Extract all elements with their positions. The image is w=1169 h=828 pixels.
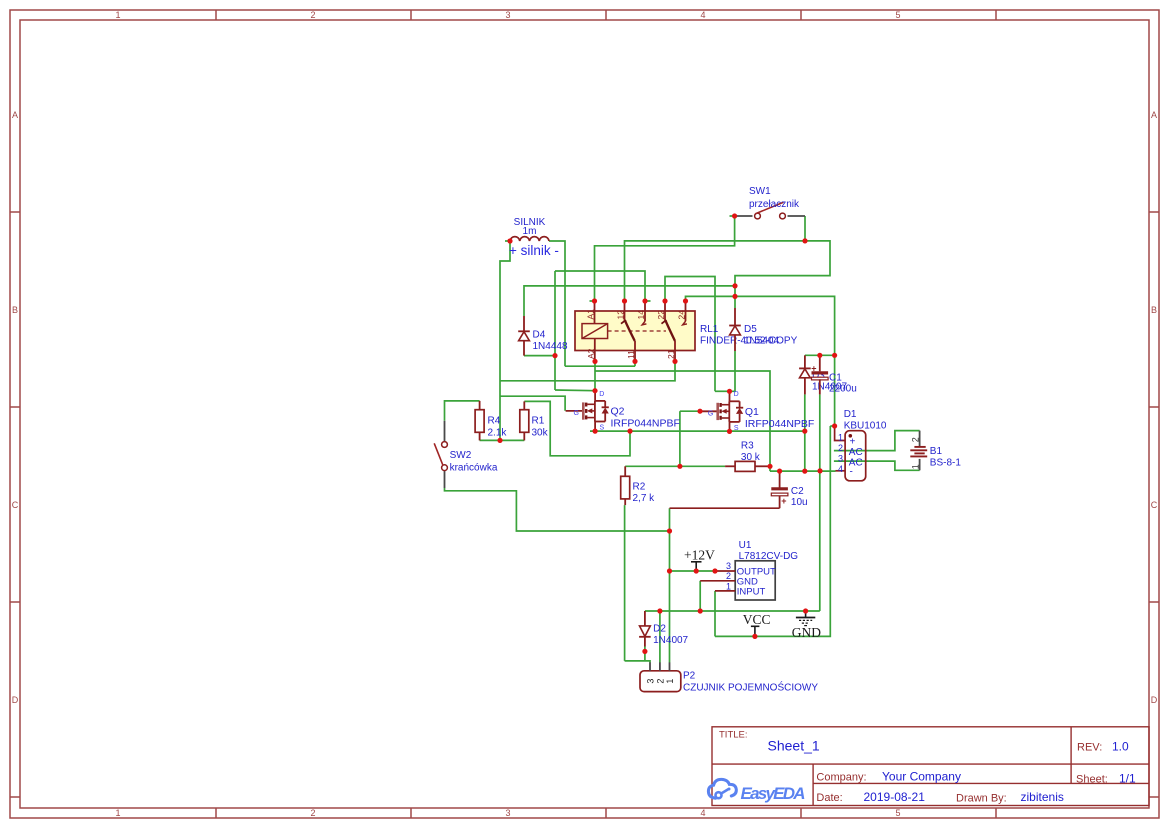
wire: x555 bottom to Q2 drain bbox=[555, 389, 595, 392]
wire: relay pin 11 stub bbox=[634, 361, 636, 366]
wire: D1 pin2 to battery terminal 2 bbox=[834, 431, 920, 451]
wire: D3 anode column through source rail bbox=[804, 394, 806, 471]
svg-text:S: S bbox=[600, 425, 605, 432]
svg-text:10u: 10u bbox=[791, 497, 808, 508]
svg-text:Drawn By:: Drawn By: bbox=[956, 792, 1007, 804]
svg-text:1: 1 bbox=[911, 464, 921, 469]
svg-text:KBU1010: KBU1010 bbox=[844, 421, 887, 432]
capacitor C1 symbol bbox=[811, 363, 828, 380]
svg-text:Company:: Company: bbox=[816, 771, 866, 783]
svg-text:2: 2 bbox=[911, 437, 921, 442]
wire: y=471 rail to D1 pin 4 bbox=[770, 470, 836, 472]
svg-text:G: G bbox=[574, 410, 579, 417]
wire: D3/C1 top rail bbox=[805, 354, 835, 356]
svg-text:TITLE:: TITLE: bbox=[719, 730, 748, 741]
U1 pin 1 INPUT bbox=[715, 590, 735, 592]
D1 pin 4 bbox=[836, 470, 846, 472]
svg-text:D: D bbox=[734, 391, 739, 398]
svg-text:AC: AC bbox=[849, 447, 863, 458]
relay pin 24 with open contact chevron bbox=[683, 301, 687, 325]
wire: Q1 gate down to R3 rail bbox=[679, 411, 681, 466]
power symbol +12V bbox=[684, 548, 715, 572]
svg-text:R1: R1 bbox=[532, 416, 545, 427]
resistor R2 body bbox=[621, 476, 630, 499]
svg-text:12: 12 bbox=[616, 310, 626, 320]
svg-text:1m: 1m bbox=[523, 226, 537, 237]
svg-text:5: 5 bbox=[895, 10, 900, 20]
svg-text:D2: D2 bbox=[653, 624, 666, 635]
svg-text:2: 2 bbox=[838, 443, 843, 453]
U1 pin numbers bbox=[726, 561, 731, 591]
svg-text:30 k: 30 k bbox=[741, 452, 761, 463]
svg-text:IRFP044NPBF: IRFP044NPBF bbox=[745, 418, 814, 430]
svg-text:krańcówka: krańcówka bbox=[450, 463, 498, 474]
wire: D5 anode down to Q1 drain bbox=[730, 351, 736, 391]
svg-text:EasyEDA: EasyEDA bbox=[741, 784, 806, 803]
svg-text:Sheet:: Sheet: bbox=[1076, 773, 1108, 785]
svg-text:2,7 k: 2,7 k bbox=[633, 493, 656, 504]
relay pin 12 bbox=[624, 301, 626, 321]
resistor R1 body bbox=[520, 410, 529, 433]
U1 pin 3 OUTPUT bbox=[715, 570, 735, 572]
wire: SW1 right terminal down bbox=[804, 216, 806, 241]
diode D5 symbol (cathode up) bbox=[729, 326, 741, 335]
svg-text:C2: C2 bbox=[791, 486, 804, 497]
svg-text:2: 2 bbox=[310, 10, 315, 20]
wire: pin 14 stub bbox=[645, 300, 651, 302]
svg-text:24: 24 bbox=[676, 310, 686, 320]
wire: pin22 loop to Q1 drain bbox=[715, 390, 730, 392]
wire: SW1 left stub bbox=[730, 215, 736, 217]
D1 polarity dot bbox=[849, 434, 853, 438]
svg-text:A: A bbox=[1151, 110, 1157, 120]
svg-text:4: 4 bbox=[700, 10, 705, 20]
svg-text:2: 2 bbox=[310, 808, 315, 818]
svg-text:14: 14 bbox=[636, 310, 646, 320]
relay pin 22 bbox=[664, 301, 666, 321]
U1 pin names bbox=[737, 566, 776, 597]
svg-text:Sheet_1: Sheet_1 bbox=[768, 738, 820, 754]
wire: pin11 rail horizontal bbox=[565, 365, 635, 367]
wire: C2 bottom horizontal (red wire) bbox=[670, 507, 780, 509]
relay RL1 FINDER-40.52 body bbox=[575, 311, 695, 351]
relay pin 11 bbox=[634, 341, 636, 361]
U1 pin 2 GND bbox=[700, 580, 735, 582]
wire: Q2 gate branch bbox=[500, 396, 565, 411]
diode D4 pins bbox=[523, 341, 525, 356]
D1 pin 1 bbox=[835, 426, 846, 441]
power symbol VCC bbox=[743, 612, 771, 636]
wire: SILNIK+ down-left to R4/R1 bottom rail bbox=[500, 241, 510, 440]
svg-text:1: 1 bbox=[115, 10, 120, 20]
wire: R2 bottom column bbox=[624, 505, 626, 661]
relay pin 21 bbox=[674, 341, 676, 361]
wire: x555 vertical (relay pin14 net) bbox=[554, 271, 556, 390]
P2 pin leads bbox=[650, 662, 670, 670]
resistor R2 2,7k bbox=[621, 466, 630, 505]
svg-text:Date:: Date: bbox=[816, 792, 842, 804]
wire: C2 bottom column to P2 pin 1 bbox=[669, 508, 671, 662]
svg-text:3: 3 bbox=[726, 561, 731, 571]
svg-text:RL1: RL1 bbox=[700, 324, 719, 335]
svg-text:3: 3 bbox=[646, 679, 656, 684]
relay contact lever 1 bbox=[621, 320, 635, 341]
svg-text:3: 3 bbox=[505, 808, 510, 818]
svg-text:D5: D5 bbox=[744, 324, 757, 335]
svg-text:GND: GND bbox=[792, 625, 821, 640]
capacitor C2 10u bbox=[771, 471, 788, 508]
svg-text:R4: R4 bbox=[488, 416, 501, 427]
svg-text:30k: 30k bbox=[532, 428, 549, 439]
svg-text:-: - bbox=[850, 467, 853, 478]
svg-text:A: A bbox=[12, 110, 18, 120]
capacitor C1 2200u bbox=[811, 355, 828, 394]
wire: GND rail bbox=[645, 610, 820, 612]
resistor R1 30k bbox=[520, 401, 529, 440]
EasyEDA logo bbox=[708, 779, 805, 803]
svg-text:D4: D4 bbox=[533, 330, 546, 341]
svg-text:2: 2 bbox=[726, 571, 731, 581]
svg-text:4: 4 bbox=[700, 808, 705, 818]
wire: SW2 bottom route east to C2 column bbox=[445, 488, 670, 531]
svg-text:Q1: Q1 bbox=[745, 406, 759, 418]
svg-text:A2: A2 bbox=[586, 348, 596, 359]
wire: R1 top right-down to source-rail branch bbox=[524, 401, 630, 455]
svg-text:1N4448: 1N4448 bbox=[533, 341, 568, 352]
wire: C1 bottom column down to GND rail bbox=[819, 394, 821, 611]
svg-text:Your Company: Your Company bbox=[882, 769, 961, 783]
wire: Q1 gate stub bbox=[680, 410, 700, 412]
D1 pin numbers bbox=[838, 432, 843, 474]
svg-text:1.0: 1.0 bbox=[1112, 740, 1129, 754]
svg-text:B: B bbox=[12, 305, 18, 315]
wire: inductor left stub bbox=[505, 240, 510, 242]
relay pin A2 bbox=[594, 339, 596, 362]
title block texts bbox=[719, 730, 1136, 805]
D1 pin names bbox=[849, 437, 863, 478]
svg-text:D: D bbox=[599, 391, 604, 398]
diode D3 pins bbox=[804, 355, 806, 394]
connector P2 CZUJNIK body bbox=[640, 671, 681, 692]
wire: R4 bottom to R1 bottom bbox=[480, 439, 525, 441]
diode D2 1N4007 (cathode down) bbox=[639, 611, 651, 647]
switch SW2 krancowka bbox=[434, 421, 447, 488]
switch SW1 przelacznik bbox=[735, 202, 805, 219]
svg-text:3: 3 bbox=[838, 453, 843, 463]
wire: U1 INPUT down to VCC rail bbox=[714, 591, 716, 637]
diode D5 pins bbox=[734, 308, 736, 351]
wire: D1 pin1 node stub bbox=[830, 425, 834, 427]
relay coil box bbox=[582, 324, 608, 339]
transistor Q2 (IRFP044NPBF N-MOSFET) bbox=[566, 391, 609, 432]
wire: relay pin A1 to SW1 left bbox=[595, 216, 735, 301]
ground symbol GND bbox=[796, 611, 815, 626]
svg-text:1/1: 1/1 bbox=[1119, 771, 1136, 785]
relay pin A1 bbox=[594, 301, 596, 324]
svg-text:11: 11 bbox=[626, 350, 636, 359]
svg-text:1: 1 bbox=[838, 432, 843, 442]
svg-text:21: 21 bbox=[666, 349, 676, 359]
wire: SILNIK- right and down to relay pin 11 rail bbox=[549, 241, 565, 366]
svg-text:zibitenis: zibitenis bbox=[1021, 790, 1064, 804]
wire: relay pin A2 stub down to Q2 drain node bbox=[594, 361, 596, 390]
svg-text:IRFP044NPBF: IRFP044NPBF bbox=[611, 418, 680, 430]
svg-text:L7812CV-DG: L7812CV-DG bbox=[739, 551, 799, 562]
wire: D2 anode stub bbox=[644, 647, 646, 661]
wire: sensor signal rail to P2 pin3 bbox=[625, 661, 650, 663]
svg-text:C: C bbox=[12, 500, 19, 510]
battery B1 BS-8-1 bbox=[910, 431, 927, 471]
svg-text:B: B bbox=[1151, 305, 1157, 315]
wire: D5 column east and down to D1 pin 1 bbox=[735, 296, 835, 426]
title block bbox=[712, 727, 1149, 806]
relay dashed link bbox=[608, 330, 666, 332]
svg-text:2.1k: 2.1k bbox=[488, 428, 508, 439]
svg-text:przełacznik: przełacznik bbox=[749, 199, 800, 210]
svg-text:+12V: +12V bbox=[684, 548, 715, 563]
svg-text:D1: D1 bbox=[844, 409, 857, 420]
svg-text:4: 4 bbox=[838, 464, 843, 474]
svg-text:SW2: SW2 bbox=[450, 450, 472, 461]
resistor R4 2.1k bbox=[475, 401, 484, 441]
svg-text:B1: B1 bbox=[930, 446, 943, 457]
svg-text:+: + bbox=[781, 496, 786, 506]
junction dots bbox=[497, 213, 837, 654]
svg-text:2: 2 bbox=[655, 679, 665, 684]
svg-text:C1: C1 bbox=[829, 373, 842, 384]
bridge rectifier D1 KBU1010 body bbox=[845, 431, 866, 481]
transistor Q1 (IRFP044NPBF N-MOSFET) bbox=[700, 391, 743, 432]
svg-text:3: 3 bbox=[505, 10, 510, 20]
svg-text:1N4007: 1N4007 bbox=[653, 635, 688, 646]
svg-text:R2: R2 bbox=[633, 482, 646, 493]
capacitor C2 symbol bbox=[771, 489, 788, 506]
wire: x555 top to relay pin 14 bbox=[555, 271, 645, 301]
svg-text:G: G bbox=[708, 410, 713, 417]
wire: SW2 top to R4 top bbox=[445, 401, 480, 421]
svg-text:P2: P2 bbox=[683, 671, 696, 682]
svg-text:1: 1 bbox=[665, 679, 675, 684]
svg-text:+ silnik -: + silnik - bbox=[509, 243, 559, 258]
svg-text:R3: R3 bbox=[741, 441, 754, 452]
svg-text:2200u: 2200u bbox=[829, 383, 857, 394]
svg-text:CZUJNIK POJEMNOŚCIOWY: CZUJNIK POJEMNOŚCIOWY bbox=[683, 681, 818, 694]
wire: pin A1 stub bbox=[590, 300, 595, 302]
wire: source rail bbox=[590, 430, 805, 432]
svg-text:+: + bbox=[850, 437, 856, 448]
wire: D1 pin3 to battery terminal 1 bbox=[834, 461, 920, 470]
wire: D4 anode to x555 column bbox=[524, 355, 555, 357]
svg-text:D: D bbox=[12, 695, 19, 705]
wire: relay pin 22 loop down right of relay bbox=[665, 277, 715, 392]
wire: VCC column from D1 pin1 node bbox=[715, 426, 830, 636]
wire: D4 cathode up and east to D5 column bbox=[524, 286, 735, 316]
svg-text:1N5404: 1N5404 bbox=[744, 336, 779, 347]
svg-text:BS-8-1: BS-8-1 bbox=[930, 458, 962, 469]
wire: A2 node east to R3 right column bbox=[595, 371, 770, 471]
relay contact lever 2 bbox=[662, 320, 676, 341]
svg-text:+: + bbox=[811, 363, 816, 373]
svg-text:D: D bbox=[1151, 695, 1158, 705]
svg-text:VCC: VCC bbox=[743, 612, 771, 627]
svg-text:C: C bbox=[1151, 500, 1158, 510]
relay pin 14 with open contact chevron bbox=[642, 301, 646, 325]
regulator U1 L7812CV-DG body bbox=[735, 561, 775, 600]
svg-text:U1: U1 bbox=[739, 540, 752, 551]
resistor R4 body bbox=[475, 410, 484, 433]
diode D3 symbol (cathode up) bbox=[799, 368, 811, 377]
wire: R2 top to R3 left rail bbox=[625, 465, 725, 467]
svg-text:1: 1 bbox=[115, 808, 120, 818]
resistor R3 30k (horizontal) bbox=[725, 461, 770, 471]
svg-text:INPUT: INPUT bbox=[737, 587, 766, 598]
svg-text:SW1: SW1 bbox=[749, 186, 771, 197]
svg-text:1: 1 bbox=[726, 582, 731, 592]
svg-text:A1: A1 bbox=[586, 309, 596, 320]
diode D4 1N4448 bbox=[518, 316, 530, 341]
svg-text:2019-08-21: 2019-08-21 bbox=[864, 790, 926, 804]
diode D4 symbol (cathode up) bbox=[518, 331, 530, 340]
svg-text:22: 22 bbox=[656, 310, 666, 320]
wire: relay pin21 to inductor column bbox=[500, 361, 675, 380]
wire: U1 GND pin down to GND rail bbox=[699, 581, 701, 611]
wire: relay pin 24 to D5 column bbox=[686, 296, 736, 301]
svg-text:5: 5 bbox=[895, 808, 900, 818]
wire: relay pin 12 to SW1 right loop down to D5 cathode bbox=[625, 241, 831, 308]
wire: GND rail to P2 pin 2 bbox=[659, 611, 661, 663]
svg-text:S: S bbox=[734, 425, 739, 432]
svg-text:Q2: Q2 bbox=[611, 406, 625, 418]
wire: +12V rail bbox=[670, 570, 716, 572]
svg-text:REV:: REV: bbox=[1077, 742, 1102, 754]
inductor SILNIK (motor) 1m bbox=[510, 237, 549, 241]
